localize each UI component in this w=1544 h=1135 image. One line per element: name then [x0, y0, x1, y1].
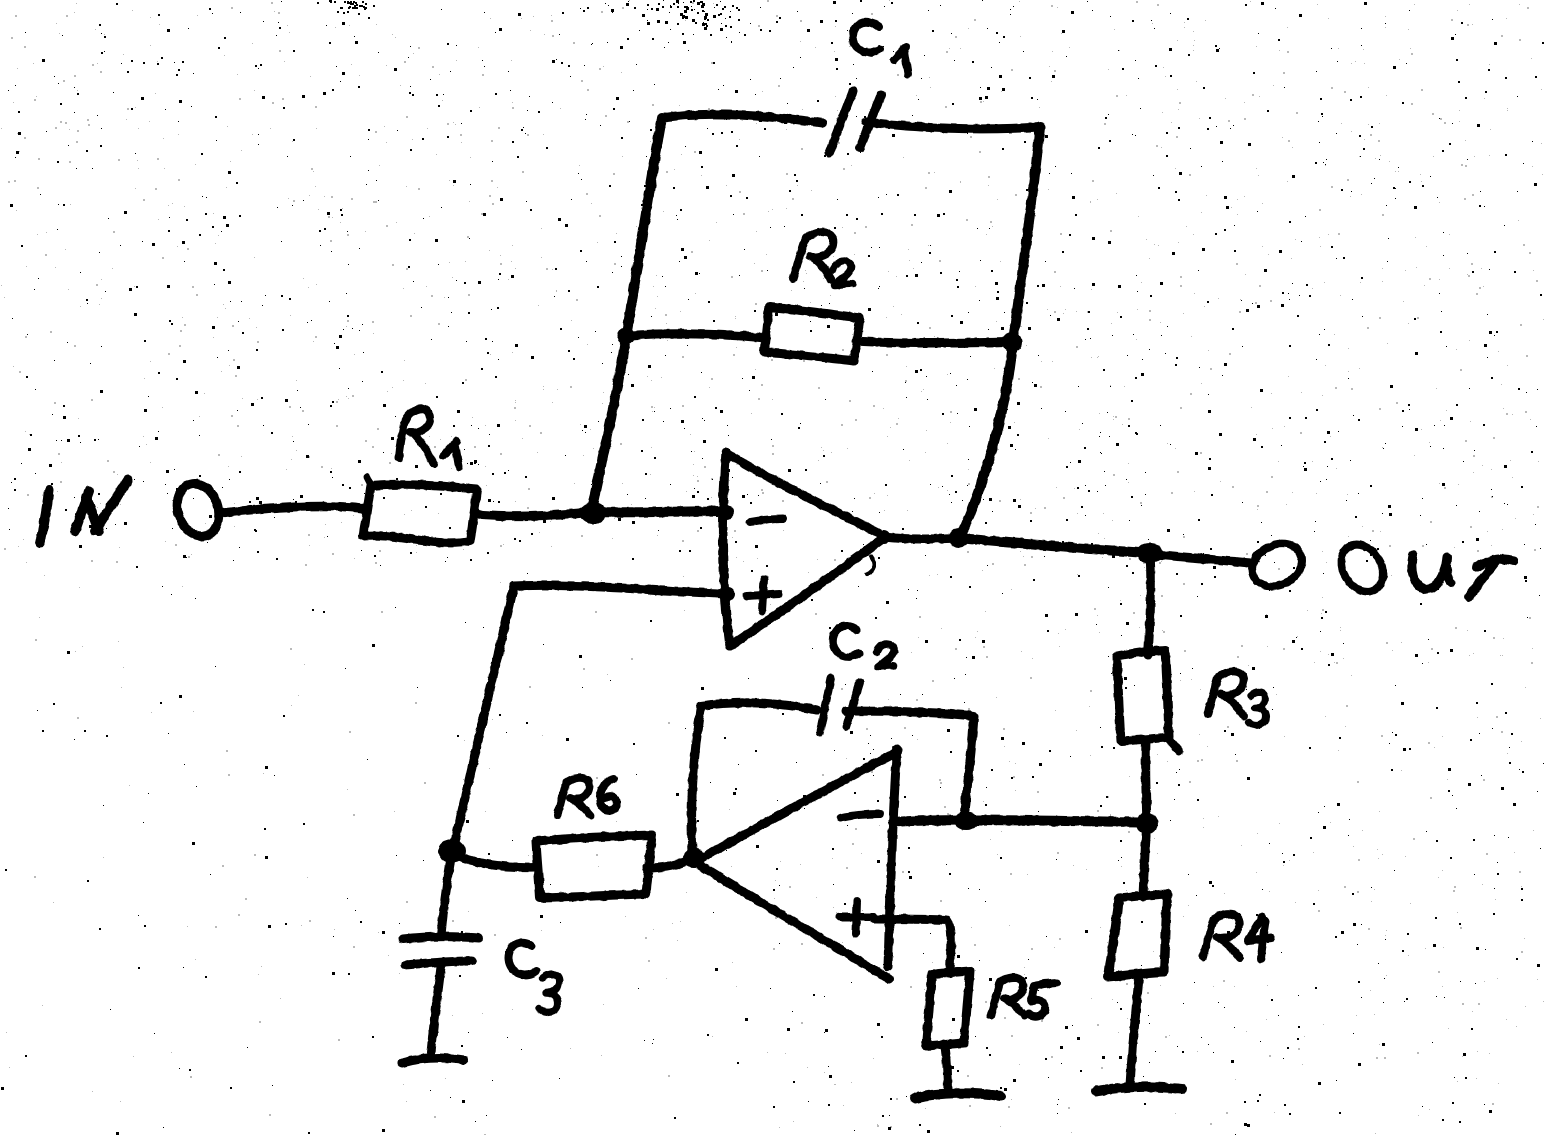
op-amp U1	[723, 452, 884, 646]
terminal OUT	[1245, 535, 1309, 594]
resistor R2 value label	[793, 232, 853, 285]
node B junction (output / right riser)	[949, 528, 969, 548]
resistor R1	[363, 485, 477, 543]
op-amp U2 inverting pin mark	[840, 814, 880, 818]
wire U1 non-inverting input horizontal	[514, 585, 727, 594]
resistor R3 value label	[1208, 671, 1266, 725]
op-amp U1 output blob	[877, 530, 891, 544]
wire R2 right	[856, 341, 1011, 343]
junction R2 right	[1002, 332, 1022, 352]
capacitor C3 label	[509, 943, 560, 1013]
node label OUT	[1332, 537, 1514, 600]
resistor R6	[536, 835, 652, 898]
junction U1 inverting input crossing	[720, 505, 734, 519]
junction R2 left	[617, 327, 635, 345]
wire node A to op-amp U1 inverting input	[593, 511, 727, 512]
node D junction (R3 / R4 / U2 inverting)	[1136, 812, 1158, 834]
node C junction (OUT / R3)	[1137, 543, 1163, 563]
ground for C3	[402, 1058, 464, 1063]
wire R4 to ground	[1130, 977, 1139, 1086]
wire R6 to U2 output node	[647, 859, 692, 868]
wire C1 right plate to top-right corner	[866, 122, 1040, 129]
capacitor C2 label	[833, 626, 894, 667]
node E junction (U1 non-inv / R6 / C3)	[438, 839, 466, 863]
op-amp U1 inverting pin mark	[750, 519, 783, 522]
node label IN	[40, 480, 128, 543]
capacitor C3	[403, 937, 479, 965]
wire node B to node C	[959, 538, 1147, 553]
capacitor C1 label	[853, 22, 908, 74]
op-amp U2 non-inverting pin mark	[840, 901, 874, 934]
resistor R1 corner tick	[367, 477, 372, 487]
op-amp U2	[695, 749, 897, 979]
wire U2 non-inverting input to R5	[874, 919, 951, 972]
wire U2 inverting input to node D	[893, 820, 1145, 822]
wire C2 right to inverting wire	[846, 711, 974, 818]
resistor R1 value label	[399, 409, 459, 467]
wire C3 to ground	[431, 967, 441, 1053]
capacitor C1	[829, 91, 881, 153]
wire node C down to R3	[1148, 554, 1151, 655]
wire left feedback riser (node A up to C1 top-left corner)	[592, 118, 662, 508]
wire R2 left	[627, 334, 766, 338]
resistor R6 value label	[558, 778, 617, 816]
wire diagonal down to node E	[453, 586, 514, 850]
node A junction	[580, 502, 606, 524]
resistor R3	[1117, 650, 1179, 751]
junction U1 non-inverting input crossing	[721, 587, 735, 601]
wire node E to C3	[441, 852, 452, 936]
op-amp U2 output node junction	[683, 848, 705, 868]
wire U1 output to node B	[884, 537, 958, 539]
resistor R5	[926, 971, 970, 1046]
resistor R4 value label	[1203, 914, 1271, 959]
wire node E to R6	[452, 853, 535, 867]
wire C1 top-left corner to C1 left plate	[662, 114, 823, 123]
wire right feedback riser (C1 corner down to output node)	[960, 127, 1040, 538]
capacitor C2 loop left riser	[692, 706, 701, 857]
pen artifact near U1 output	[867, 556, 874, 574]
resistor R5 value label	[991, 978, 1057, 1017]
junction C2 right on inverting wire	[954, 812, 978, 830]
wire node D to R4	[1143, 823, 1147, 897]
wire R5 to ground	[945, 1046, 948, 1092]
ground for R4	[1096, 1087, 1182, 1091]
wire node C to OUT terminal	[1150, 554, 1251, 563]
terminal IN	[171, 478, 226, 542]
wire R3 to node D	[1146, 740, 1147, 823]
wire C2 top left	[701, 703, 817, 710]
capacitor C2	[820, 678, 860, 732]
wire IN terminal to R1	[221, 506, 366, 513]
resistor R2	[764, 307, 860, 361]
op-amp U1 non-inverting pin mark	[747, 579, 779, 611]
resistor R4	[1108, 894, 1167, 977]
wire R1 to node A	[474, 512, 589, 516]
ground for R5	[915, 1093, 1001, 1098]
